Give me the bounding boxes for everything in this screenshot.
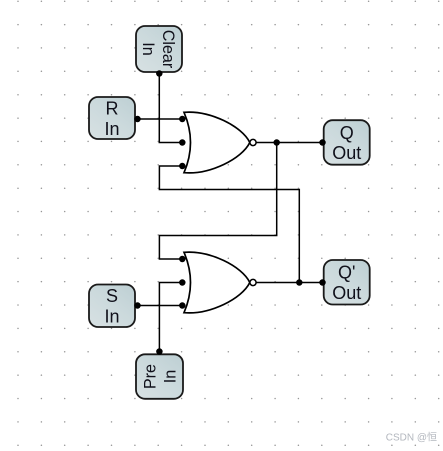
- wire: Q feedback U1 output to U2 input 1: [159, 143, 276, 260]
- junction dot: U2 input 1: [179, 256, 186, 263]
- NOR gate U2 body: [184, 252, 250, 313]
- terminal: R In: [134, 116, 141, 123]
- junction dot: U2 input 2: [179, 279, 186, 286]
- NOR gate U1 body: [184, 112, 250, 173]
- wire: Clear In to U1 input 2: [159, 74, 182, 143]
- U1 output bubble: [250, 139, 256, 145]
- wire: S In to U2 input 3: [138, 305, 183, 307]
- svg-text:CSDN @恒: CSDN @恒: [386, 431, 437, 444]
- wire: R In to U1 input 1: [138, 118, 183, 120]
- wire: U2 output to Q' Out: [253, 282, 323, 284]
- terminal: S In: [134, 302, 141, 309]
- svg-text:Pre: Pre: [141, 364, 160, 389]
- terminal: Clear In: [156, 70, 163, 77]
- input pin R In: [89, 97, 135, 139]
- wire: U1 output to Q Out: [253, 142, 323, 144]
- svg-text:In: In: [104, 119, 119, 139]
- junction dot: node Q': [296, 279, 303, 286]
- U2 output bubble: [250, 279, 256, 285]
- terminal: Pre In: [156, 348, 163, 355]
- svg-text:In: In: [139, 42, 158, 56]
- svg-text:Q: Q: [340, 123, 354, 143]
- input pin S In: [89, 285, 135, 328]
- wire: Pre In to U2 input 2: [159, 283, 182, 352]
- terminal: Q Out: [319, 139, 326, 146]
- input pin Pre In: [136, 354, 183, 399]
- wire: Q' feedback U2 output to U1 input 3: [159, 166, 299, 283]
- svg-text:Clear: Clear: [159, 30, 178, 69]
- svg-text:Out: Out: [332, 143, 361, 163]
- junction dot: U1 input 2: [179, 139, 186, 146]
- junction dot: U1 input 1: [179, 116, 186, 123]
- junction dot: U2 input 3: [179, 302, 186, 309]
- output pin Q' Out: [324, 260, 370, 305]
- junction dot: U1 input 3: [179, 163, 186, 170]
- svg-text:In: In: [161, 370, 180, 384]
- svg-text:Q': Q': [338, 263, 355, 283]
- terminal: Q' Out: [319, 279, 326, 286]
- output pin Q Out: [324, 120, 370, 165]
- svg-text:S: S: [106, 286, 118, 306]
- svg-text:In: In: [104, 307, 119, 327]
- junction dot: node Q: [273, 139, 280, 146]
- svg-text:R: R: [106, 98, 119, 118]
- input pin Clear In: [136, 26, 182, 72]
- svg-text:Out: Out: [332, 283, 361, 303]
